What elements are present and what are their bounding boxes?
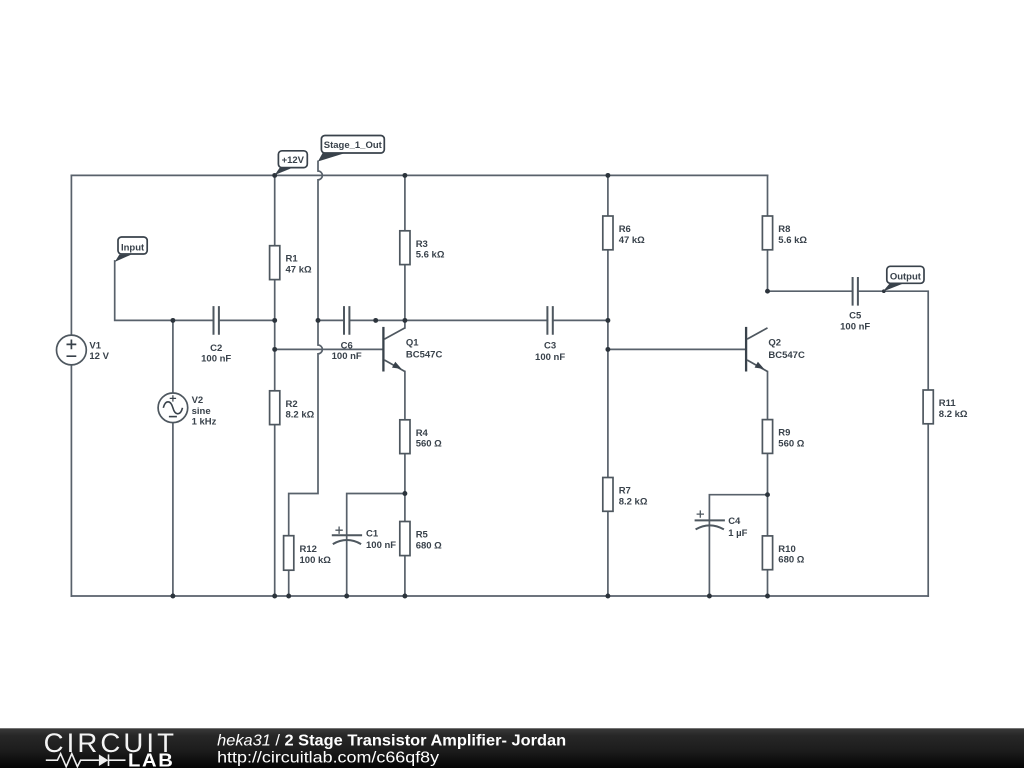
resistor R10 body	[762, 536, 772, 570]
svg-text:R10: R10	[778, 544, 795, 555]
resistor R5 body	[400, 522, 410, 556]
svg-text:Input: Input	[121, 242, 145, 253]
footer logo resistor-diode drawing	[46, 754, 126, 767]
wire input flag drop and row to C2	[115, 261, 214, 320]
svg-text:1 kHz: 1 kHz	[192, 416, 217, 427]
junction node ground rail at C1	[344, 594, 349, 599]
wire base row B: R1/R2 tap to Q1 base	[275, 348, 383, 350]
svg-text:C6: C6	[341, 340, 353, 351]
svg-text:R8: R8	[778, 224, 790, 235]
wire row A: C3 right plate to R6 column	[553, 319, 608, 321]
wire row A: C2 right plate to R1/R2 node	[219, 319, 275, 321]
resistor R4 body	[400, 420, 410, 454]
junction node row A at R6	[605, 318, 610, 323]
wire row A: Stage_1_Out node to C6 left plate	[318, 319, 344, 321]
capacitor C2 plates	[214, 306, 219, 335]
junction node ground rail at R7	[605, 594, 610, 599]
capacitor C4 polarized plates	[695, 520, 725, 529]
wire R8 top lead from +12V rail	[767, 175, 769, 216]
wire base row to Q2 base	[608, 348, 745, 350]
resistor R12 body	[284, 536, 294, 571]
resistor R2 body	[270, 391, 280, 425]
svg-text:8.2 kΩ: 8.2 kΩ	[286, 410, 315, 421]
svg-text:R1: R1	[286, 254, 299, 265]
svg-text:5.6 kΩ: 5.6 kΩ	[416, 250, 445, 261]
wire bottom ground rail	[71, 595, 928, 597]
wire R3 top lead from +12V rail	[404, 175, 406, 230]
wire Q1 emitter column to R4	[404, 372, 406, 420]
svg-text:680 Ω: 680 Ω	[778, 555, 804, 566]
junction node ground rail at R2	[272, 594, 277, 599]
svg-text:100 nF: 100 nF	[535, 352, 565, 363]
junction node row A at V2	[170, 318, 175, 323]
svg-text:sine: sine	[192, 406, 211, 417]
wire R1 top lead from +12V rail	[274, 175, 276, 245]
svg-text:BC547C: BC547C	[406, 350, 443, 361]
junction node on +12V rail at R1	[272, 173, 277, 178]
svg-text:http://circuitlab.com/c66qf8y: http://circuitlab.com/c66qf8y	[217, 750, 439, 767]
svg-text:R9: R9	[778, 428, 790, 439]
junction node ground rail at C4	[707, 594, 712, 599]
junction node C5 row at Q2 collector / R8	[765, 289, 770, 294]
resistor R8 body	[762, 216, 772, 250]
svg-text:Output: Output	[890, 272, 922, 283]
svg-text:560 Ω: 560 Ω	[778, 438, 804, 449]
junction node emitter row at R4/R5	[402, 491, 407, 496]
wire R2 bottom lead to ground rail	[274, 425, 276, 596]
svg-text:R6: R6	[619, 224, 631, 235]
svg-text:47 kΩ: 47 kΩ	[619, 235, 645, 246]
capacitor C1 plus sign	[335, 527, 342, 534]
net flag Stage_1_Out	[318, 136, 384, 162]
svg-text:R5: R5	[416, 530, 429, 541]
wire C5 row: collector node to C5 left plate	[768, 290, 853, 292]
junction node row A at Q1 collector / R3	[402, 318, 407, 323]
junction node base row at R6/R7 column	[605, 347, 610, 352]
svg-text:Stage_1_Out: Stage_1_Out	[324, 140, 383, 151]
capacitor C6 plates	[344, 306, 349, 335]
svg-text:100 kΩ: 100 kΩ	[300, 555, 332, 566]
svg-text:680 Ω: 680 Ω	[416, 540, 442, 551]
wire R12 bottom lead	[288, 570, 290, 596]
junction node on +12V rail at R6	[605, 173, 610, 178]
junction node emitter row at R9/R10	[765, 492, 770, 497]
wire Q2 emitter column to R9	[767, 372, 769, 420]
junction node row A at Stage_1_Out drop	[316, 318, 321, 323]
wire emitter node row to C1 and C1 lead	[347, 494, 405, 597]
wire R1 bottom to R2 top (through row A and base tap nodes)	[274, 280, 276, 391]
transistor Q1 BC547C	[383, 327, 405, 372]
svg-text:R12: R12	[300, 544, 317, 555]
svg-text:V1: V1	[89, 340, 101, 351]
wire R9 bottom to R10 top through emitter node row	[767, 453, 769, 536]
wire R4 bottom to R5 top through emitter node row	[404, 454, 406, 522]
svg-text:heka31 / 2 Stage Transistor Am: heka31 / 2 Stage Transistor Amplifier- J…	[217, 732, 566, 749]
junction node ground rail at R12	[286, 594, 291, 599]
wire R3 bottom lead to Q1 collector node	[404, 265, 406, 328]
junction node on +12V rail at R3	[402, 173, 407, 178]
capacitor C4 plus sign	[697, 510, 704, 517]
svg-text:C2: C2	[210, 343, 222, 354]
svg-text:C4: C4	[728, 516, 741, 527]
svg-text:47 kΩ: 47 kΩ	[286, 265, 312, 276]
svg-text:R7: R7	[619, 486, 631, 497]
svg-text:100 nF: 100 nF	[201, 354, 231, 365]
resistor R9 body	[762, 420, 772, 454]
junction node ground rail at R5	[402, 594, 407, 599]
junction node ground rail at V2	[170, 594, 175, 599]
net flag Output	[883, 266, 924, 291]
svg-text:Q1: Q1	[406, 337, 419, 348]
svg-text:100 nF: 100 nF	[332, 351, 362, 362]
wire top rail (+12V net)	[71, 174, 767, 176]
resistor R1 body	[270, 246, 280, 280]
wire row A: C6 right plate to C3 left plate	[349, 319, 547, 321]
svg-text:560 Ω: 560 Ω	[416, 439, 442, 450]
svg-text:R3: R3	[416, 239, 428, 250]
wire R6 top lead from +12V rail	[607, 175, 609, 216]
resistor R11 body	[923, 390, 933, 424]
capacitor C5 plates	[853, 277, 858, 306]
svg-text:V2: V2	[192, 395, 204, 406]
svg-text:1 µF: 1 µF	[728, 528, 747, 539]
wire R11 bottom lead to ground rail	[927, 424, 929, 596]
svg-text:Q2: Q2	[768, 338, 781, 349]
wire V2 bottom lead	[172, 423, 174, 596]
wire R10 bottom lead to ground rail	[767, 570, 769, 596]
wire emitter node row to C4 and C4 lead	[709, 495, 767, 596]
footer bar	[0, 728, 1024, 768]
wire C5 right plate to output corner down to R11	[858, 291, 928, 390]
wire left rail upper (V1 top)	[70, 175, 72, 335]
svg-text:8.2 kΩ: 8.2 kΩ	[939, 409, 968, 420]
svg-text:+12V: +12V	[282, 155, 305, 166]
footer logo diode triangle	[99, 754, 108, 766]
voltage source V2 (sine)	[158, 393, 188, 423]
svg-text:LAB: LAB	[128, 749, 175, 768]
svg-text:R2: R2	[286, 399, 298, 410]
voltage source V1	[57, 335, 87, 365]
junction node row A mid segment	[373, 318, 378, 323]
wire R8 bottom lead to collector/C5 node	[767, 250, 769, 291]
wire V2 top lead	[172, 320, 174, 393]
junction node row A at R1/R2	[272, 318, 277, 323]
svg-text:C5: C5	[849, 310, 862, 321]
junction node base row at R1/R2 column	[272, 347, 277, 352]
junction node output flag tip	[882, 289, 886, 293]
wire R5 bottom lead to ground rail	[404, 556, 406, 596]
svg-text:C1: C1	[366, 529, 379, 540]
svg-text:BC547C: BC547C	[768, 350, 805, 361]
svg-text:8.2 kΩ: 8.2 kΩ	[619, 496, 648, 507]
svg-text:R4: R4	[416, 428, 429, 439]
svg-text:100 nF: 100 nF	[366, 540, 396, 551]
svg-text:100 nF: 100 nF	[840, 322, 870, 333]
net flag +12V	[275, 151, 308, 175]
resistor R3 body	[400, 231, 410, 265]
svg-text:C3: C3	[544, 341, 556, 352]
svg-text:R11: R11	[939, 398, 957, 409]
net flag Input	[115, 237, 147, 262]
wire R7 bottom lead to ground rail	[607, 511, 609, 596]
wire left rail lower (V1 bottom to ground rail)	[70, 365, 72, 596]
resistor R6 body	[603, 216, 613, 250]
capacitor C3 plates	[547, 306, 552, 335]
resistor R7 body	[603, 478, 613, 512]
transistor Q2 BC547C	[746, 327, 767, 372]
wire Stage_1_Out drop with hops over +12V rail and base row	[289, 161, 323, 535]
wire R6 bottom through row A, base row, to R7 top	[607, 250, 609, 478]
svg-text:5.6 kΩ: 5.6 kΩ	[778, 235, 807, 246]
capacitor C1 polarized plates	[332, 535, 362, 544]
junction node ground rail at R10	[765, 594, 770, 599]
svg-text:12 V: 12 V	[89, 351, 109, 362]
